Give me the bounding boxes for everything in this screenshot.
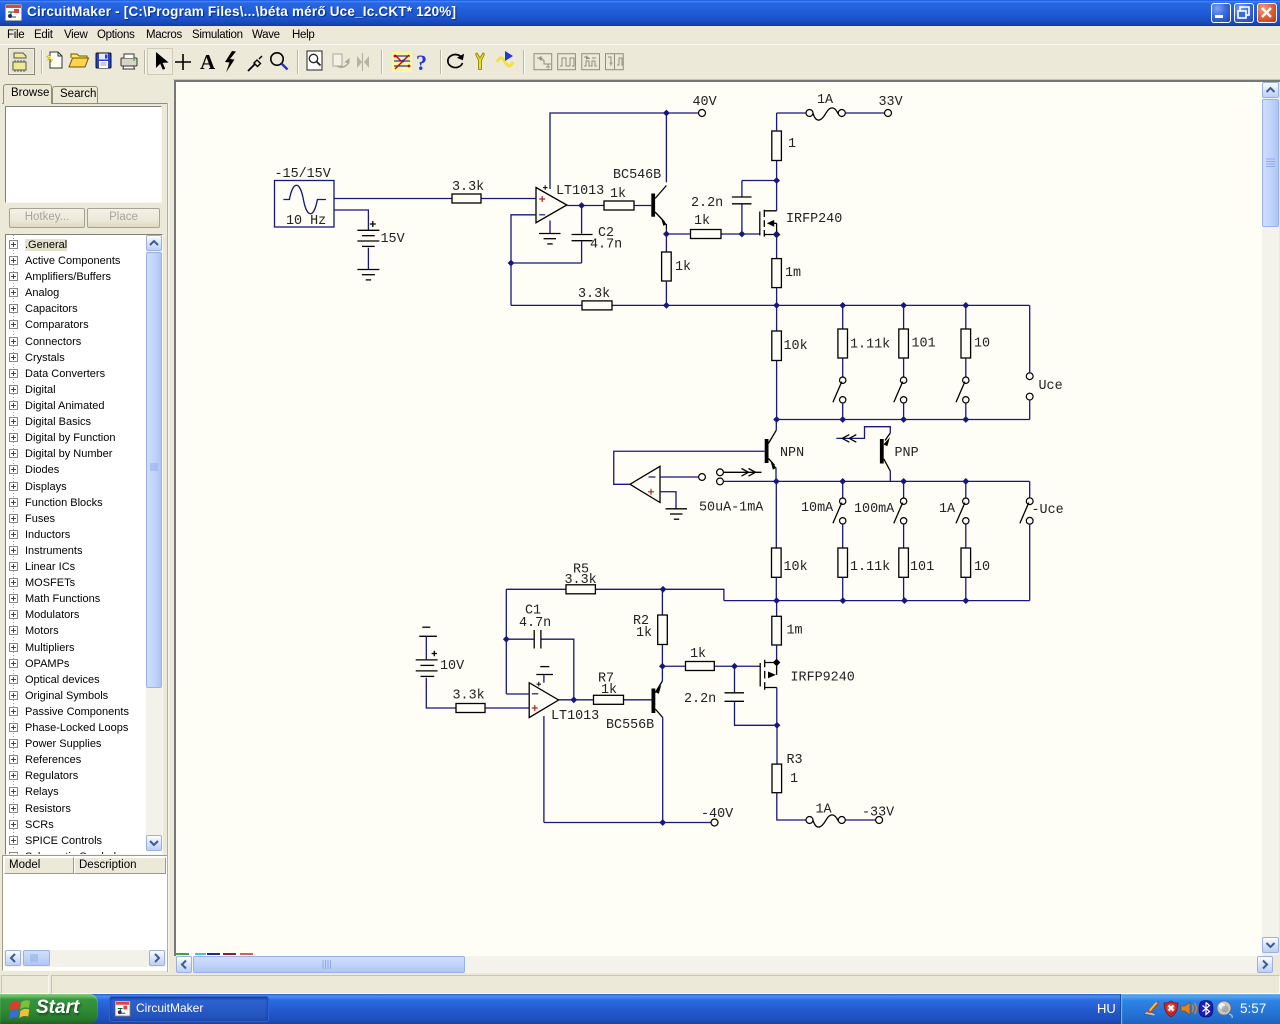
tray [1120, 994, 1280, 1024]
svg-text:BC556B: BC556B [606, 718, 654, 733]
transistor Q6 BC556B PNP [606, 666, 663, 822]
resistor R3 1 [772, 725, 803, 792]
resistor 1.11k lower column2 [838, 548, 890, 601]
signal source V1 -15/15V 10Hz [275, 167, 335, 229]
red shield [1164, 1001, 1178, 1017]
svg-text:2.2n: 2.2n [691, 196, 723, 211]
transistor Q5 PNP under test [836, 427, 918, 482]
svg-text:PNP: PNP [895, 446, 919, 461]
svg-text:LT1013: LT1013 [551, 709, 599, 724]
ground U2 [666, 509, 688, 519]
resistor 1.11k column2 [838, 305, 890, 376]
node junction gate/cap [739, 231, 746, 238]
wire R3 to fuse [777, 793, 806, 820]
tiny minimized window stripes above hscrollbar [176, 953, 189, 955]
svg-text:40V: 40V [693, 95, 717, 110]
resistor 10k column1 [772, 305, 808, 419]
ground above battery 10V [419, 627, 437, 636]
hscrollbar of model panel [4, 950, 166, 967]
resistor R5 3.3k [565, 563, 597, 594]
wire battery to 3.3k [426, 678, 456, 708]
wire battery to ground [367, 248, 369, 270]
node emitter/gate junction [659, 663, 666, 670]
svg-text:10mA: 10mA [801, 501, 834, 516]
sep [440, 50, 442, 74]
rotate (gray) [333, 54, 349, 67]
sep [41, 50, 43, 74]
svg-text:10k: 10k [784, 560, 808, 575]
svg-text:101: 101 [910, 560, 934, 575]
resistor 1 top [772, 113, 796, 181]
svg-text:10k: 10k [784, 339, 808, 354]
fuse 1A bottom [806, 803, 876, 828]
svg-text:33V: 33V [879, 95, 903, 110]
transistor Q7 IRFP9240 MOSFET [760, 659, 855, 690]
svg-text:1A: 1A [817, 93, 834, 108]
svg-text:4.7n: 4.7n [590, 238, 622, 253]
wire op-amp V+ up to 40V rail [550, 113, 699, 189]
svg-text:LT1013: LT1013 [556, 184, 604, 199]
svg-text:R3: R3 [787, 753, 803, 768]
title bar [0, 0, 1280, 26]
probe [248, 56, 262, 71]
hotkey/place buttons [9, 208, 85, 228]
resistor 101 column3 [899, 305, 936, 376]
switch 100mA [854, 481, 907, 548]
toolbar [0, 44, 1280, 79]
HU indicator [1097, 1001, 1116, 1016]
switch column4 [956, 377, 969, 420]
wire emitter node BC546B [663, 229, 760, 252]
wire U3 output [559, 696, 652, 703]
switch 1A [939, 481, 969, 548]
wire 2.2n top to drain node [742, 177, 780, 184]
resistor 1m [772, 259, 801, 306]
transistor Q4 NPN under test [765, 420, 804, 482]
plus [175, 54, 191, 70]
pen icon [1144, 1001, 1160, 1017]
four grayed wave glyph boxes [534, 54, 624, 70]
svg-text:101: 101 [912, 337, 936, 352]
svg-text:50uA-1mA: 50uA-1mA [699, 501, 764, 516]
svg-text:-40V: -40V [701, 807, 733, 822]
svg-text:1A: 1A [939, 502, 956, 517]
wire IRFP9240 source to node [774, 688, 781, 729]
resistor 3.3k bottom input [453, 689, 486, 713]
svg-text:2.2n: 2.2n [684, 692, 716, 707]
svg-text:IRFP240: IRFP240 [786, 212, 842, 227]
resistor 1k base [604, 187, 634, 210]
resistor 1k gate bottom [686, 647, 715, 671]
start button [0, 994, 98, 1024]
task button [109, 996, 269, 1022]
wire feedback minus input [508, 215, 582, 306]
wire U2 output feedback to NPN base [614, 451, 765, 484]
magnifier [271, 53, 288, 70]
svg-text:1A: 1A [816, 803, 833, 818]
wire op-amp V- to ground [549, 221, 551, 234]
left panel [0, 79, 173, 973]
svg-text:3.3k: 3.3k [578, 287, 610, 302]
wire gate line bottom [662, 663, 759, 670]
svg-text:1.11k: 1.11k [850, 338, 890, 353]
print [121, 54, 137, 69]
volume sphere [1217, 1001, 1232, 1018]
blue arrow + yellow wave [497, 51, 513, 66]
terminal 40V [693, 95, 717, 117]
bluetooth [1199, 1001, 1213, 1018]
taskbar [0, 994, 1280, 1024]
svg-text:1k: 1k [694, 214, 710, 229]
terminal 33V [879, 95, 903, 117]
white listbox [5, 106, 162, 203]
svg-text:-15/15V: -15/15V [275, 167, 331, 182]
svg-text:?: ? [416, 50, 427, 75]
node junction 40V rail / collector [663, 110, 670, 117]
tree [5, 234, 163, 855]
svg-text:-33V: -33V [862, 806, 894, 821]
label 50uA-1mA [699, 501, 764, 516]
svg-text:1k: 1k [675, 260, 691, 275]
svg-text:1m: 1m [787, 624, 803, 639]
sep [297, 50, 299, 74]
wire U2 minus input to jack [660, 474, 705, 481]
svg-text:BC546B: BC546B [613, 168, 661, 183]
op-amp U2 current sense [630, 466, 660, 502]
svg-text:100mA: 100mA [854, 502, 895, 517]
resistor 101 lower column3 [899, 548, 934, 601]
browse toggle button (pressed) [9, 49, 35, 75]
capacitor 2.2n bottom [684, 666, 777, 725]
switch 10mA [801, 481, 846, 548]
svg-text:A: A [200, 50, 216, 74]
switch column3 [894, 377, 907, 420]
svg-text:Uce: Uce [1039, 379, 1063, 394]
svg-text:1: 1 [788, 137, 796, 152]
fuse 1A top [777, 93, 885, 120]
sep [381, 50, 383, 74]
wrench yellow [476, 53, 485, 70]
wire -40V rail [544, 819, 711, 826]
tabs [3, 84, 52, 104]
resistor 10k lower column1 [772, 481, 808, 600]
svg-text:10 Hz: 10 Hz [286, 214, 326, 229]
transistor Q1 BC546B NPN [613, 168, 667, 229]
svg-text:IRFP9240: IRFP9240 [791, 671, 855, 686]
op-amp U1 LT1013 [536, 184, 604, 223]
svg-text:3.3k: 3.3k [452, 180, 484, 195]
svg-text:NPN: NPN [780, 446, 804, 461]
svg-text:1.11k: 1.11k [850, 560, 890, 575]
resistor 3.3k feedback [578, 287, 612, 310]
svg-text:-Uce: -Uce [1032, 503, 1064, 518]
node C1 junction [503, 636, 510, 643]
reset circular arrow [448, 54, 464, 68]
op-amp U3 LT1013 [529, 682, 599, 724]
wire R5 feedback line [506, 588, 663, 590]
svg-text:1m: 1m [785, 266, 801, 281]
wire drain IRFP240 [776, 181, 778, 211]
switch terminal -Uce [1020, 481, 1064, 600]
svg-text:10V: 10V [440, 659, 464, 674]
terminal -40V [701, 807, 733, 826]
panel splitter groove [167, 103, 168, 972]
capacitor C2 4.7n [572, 206, 623, 264]
tree scrollbar [146, 235, 162, 851]
resistor R2 1k [633, 614, 667, 666]
clock [1240, 1001, 1266, 1016]
wire 3.3k to U3 plus input [485, 707, 529, 709]
battery 10V [416, 636, 464, 676]
resistor 3.3k input [452, 180, 484, 203]
wire collector riser BC546B [665, 113, 667, 182]
select arrow button [148, 49, 173, 75]
svg-text:1k: 1k [601, 683, 617, 698]
wire feedback to U3 minus [506, 589, 529, 694]
resistor 1k gate [691, 214, 722, 239]
svg-text:3.3k: 3.3k [565, 573, 597, 588]
svg-text:10: 10 [974, 560, 990, 575]
transistor Q3 IRFP240 MOSFET [760, 210, 842, 239]
ground above U3 [536, 667, 553, 683]
svg-text:1k: 1k [636, 626, 652, 641]
svg-text:10: 10 [974, 337, 990, 352]
jack pair with arrow [717, 469, 762, 485]
tray icons [1143, 1000, 1235, 1018]
speaker orange [1181, 1002, 1197, 1015]
wire R2 column [661, 589, 663, 615]
svg-text:3.3k: 3.3k [453, 689, 485, 704]
wire source lower pin to battery [334, 210, 368, 230]
new [47, 52, 63, 68]
switch column2 [833, 377, 846, 420]
wire bus4 [660, 586, 1030, 604]
capacitor 2.2n compensation top [691, 181, 752, 235]
wire bus3 [724, 478, 1030, 485]
zoom page [307, 51, 322, 70]
sep [523, 50, 525, 74]
canvas vertical scrollbar [1262, 82, 1279, 955]
ground below battery 15V [357, 270, 379, 280]
svg-text:1: 1 [790, 772, 798, 787]
wire bus2 [773, 416, 1029, 423]
flip (gray) [357, 53, 369, 71]
terminal Uce [1026, 305, 1062, 419]
wire source IRFP240 to 1m [773, 231, 780, 259]
wire bus1 top rail [511, 302, 1030, 309]
model/description [2, 855, 168, 971]
save [96, 53, 111, 68]
canvas horizontal scrollbar [176, 956, 1273, 973]
wire U2 plus input to ground [660, 492, 676, 509]
resistor R7 1k [594, 672, 624, 705]
menu bar [0, 26, 1280, 44]
open [69, 54, 89, 67]
status bar [0, 973, 1280, 994]
lightning [225, 51, 236, 73]
resistor 10 lower column4 [961, 548, 990, 601]
svg-text:15V: 15V [381, 232, 405, 247]
resistor 10 column4 [961, 305, 990, 376]
ground below op-amp U1 [539, 234, 561, 244]
resistor 1k emitter [662, 252, 691, 305]
sep [144, 50, 146, 74]
svg-text:4.7n: 4.7n [519, 616, 551, 631]
wire op-amp output to base [567, 202, 652, 209]
svg-text:1k: 1k [690, 647, 706, 662]
wire U3 V- down to -40V rail [543, 716, 545, 823]
terminal -33V [862, 806, 894, 824]
capacitor C1 4.7n [506, 604, 574, 700]
resistor 1m bottom [772, 601, 803, 661]
svg-text:1k: 1k [610, 187, 626, 202]
wire source output to op-amp + input [334, 198, 536, 200]
wires colored icon [392, 52, 412, 72]
battery 15V [357, 221, 404, 247]
canvas [174, 80, 1280, 956]
